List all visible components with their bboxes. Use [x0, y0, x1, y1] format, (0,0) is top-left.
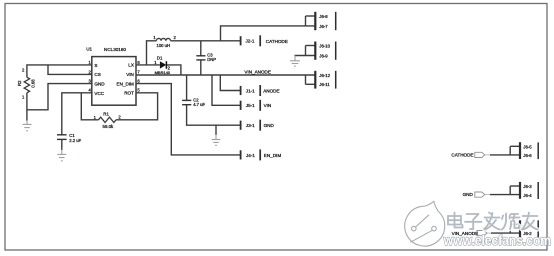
- svg-text:VIN: VIN: [126, 72, 134, 77]
- svg-text:J4-1: J4-1: [246, 153, 255, 158]
- svg-text:www.elecfans.com: www.elecfans.com: [443, 232, 551, 248]
- svg-text:J5-1: J5-1: [246, 103, 255, 108]
- svg-text:ROT: ROT: [124, 91, 134, 96]
- svg-text:2: 2: [22, 68, 25, 73]
- svg-text:J6-11: J6-11: [319, 82, 330, 87]
- svg-text:EN_DIM: EN_DIM: [264, 153, 282, 158]
- svg-text:NCL30160: NCL30160: [104, 47, 126, 52]
- svg-text:0.68: 0.68: [31, 79, 36, 88]
- svg-text:CATHODE: CATHODE: [451, 152, 473, 157]
- svg-text:VIN: VIN: [264, 103, 272, 108]
- svg-text:R1: R1: [103, 112, 109, 117]
- svg-text:J6-8: J6-8: [319, 14, 328, 19]
- svg-text:J6-6: J6-6: [523, 153, 532, 158]
- svg-text:GND: GND: [94, 82, 105, 87]
- svg-text:DNP: DNP: [207, 57, 216, 62]
- svg-text:1: 1: [22, 94, 25, 99]
- svg-text:J6-5: J6-5: [523, 144, 532, 149]
- svg-text:2: 2: [118, 114, 121, 119]
- svg-text:MBR140: MBR140: [155, 70, 171, 75]
- svg-text:LX: LX: [128, 63, 134, 68]
- svg-text:J6-7: J6-7: [319, 24, 328, 29]
- svg-text:J6-9: J6-9: [319, 53, 328, 58]
- svg-text:4: 4: [88, 88, 91, 93]
- svg-text:1: 1: [153, 35, 156, 40]
- svg-text:2.2 uF: 2.2 uF: [69, 138, 81, 143]
- svg-text:J6-4: J6-4: [523, 193, 532, 198]
- svg-text:5: 5: [137, 88, 140, 93]
- svg-text:U1: U1: [86, 46, 92, 51]
- svg-text:2: 2: [174, 35, 177, 40]
- svg-text:J1-1: J1-1: [246, 88, 255, 93]
- svg-text:100 uH: 100 uH: [157, 43, 171, 48]
- svg-text:ANODE: ANODE: [263, 88, 279, 93]
- svg-text:7: 7: [137, 69, 140, 74]
- svg-text:GND: GND: [264, 123, 275, 128]
- svg-text:J6-12: J6-12: [319, 73, 330, 78]
- svg-text:VIN_ANODE: VIN_ANODE: [244, 70, 271, 75]
- svg-text:S: S: [94, 63, 97, 68]
- svg-text:GND: GND: [463, 192, 474, 197]
- svg-text:J3-1: J3-1: [246, 123, 255, 128]
- svg-text:D1: D1: [157, 56, 163, 61]
- svg-text:VCC: VCC: [94, 91, 104, 96]
- svg-text:3: 3: [88, 79, 91, 84]
- svg-text:2: 2: [88, 69, 91, 74]
- svg-text:J2-1: J2-1: [246, 39, 255, 44]
- svg-text:J6-3: J6-3: [523, 184, 532, 189]
- svg-text:R2: R2: [17, 80, 22, 86]
- svg-text:8: 8: [137, 60, 140, 65]
- svg-text:J6-10: J6-10: [319, 43, 330, 48]
- svg-text:1: 1: [94, 115, 97, 120]
- svg-text:6: 6: [137, 79, 140, 84]
- svg-text:CATHODE: CATHODE: [266, 39, 288, 44]
- svg-text:EN_DIM: EN_DIM: [117, 81, 135, 86]
- svg-text:1: 1: [88, 60, 91, 65]
- svg-text:59.0k: 59.0k: [103, 124, 115, 129]
- svg-text:4.7 uF: 4.7 uF: [193, 102, 205, 107]
- svg-text:CS: CS: [94, 72, 100, 77]
